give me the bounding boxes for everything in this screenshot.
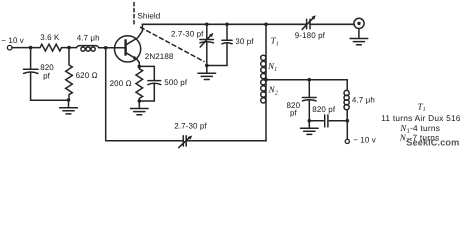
node dot (C5 bottom) [308,119,312,123]
svg-text:2N2188: 2N2188 [145,52,174,61]
label 820 pf (C1) [40,63,54,81]
capacitor C5 820 pf vertical [303,80,317,121]
svg-text:620 Ω: 620 Ω [76,71,98,80]
svg-text:2.7-30 pf: 2.7-30 pf [174,122,207,131]
terminal J3 -10v [345,139,349,143]
node T1 tap dot [264,78,268,82]
svg-text:3.6 K: 3.6 K [40,33,60,42]
inductor L1 4.7 uh [77,46,99,52]
svg-text:Shield: Shield [138,12,161,21]
node junction dot (R2 bottom) [67,98,71,102]
transformer T1 winding line [265,24,267,141]
capacitor C2 500 pf [139,66,160,101]
svg-text:2.7-30 pf: 2.7-30 pf [171,29,204,38]
ground (emitter) [131,101,149,115]
wire feedback bottom left segment [106,140,183,142]
wire feedback bottom right segment [187,140,266,142]
wire left rail [12,47,40,49]
wire C3 bottom to C4 bottom [207,65,227,67]
svg-text:T1: T1 [418,101,426,113]
node dot (C5 top) [308,78,312,82]
shield dashed line diagonal [141,27,205,61]
node rail dot (T1 top) [264,23,268,27]
terminal J2 output coax [354,18,364,28]
node rail dot (C4 30pf) [225,23,229,27]
node base junction dot [104,46,108,50]
node junction dot (820pf / rail) [29,46,33,50]
wire feedback vertical left [105,48,107,141]
ground (output terminal) [350,29,368,45]
node dot (L2 bottom) [346,119,350,123]
node emitter junction dot [138,65,142,69]
svg-text:T1: T1 [271,36,279,48]
inductor L2 4.7 uh [344,80,349,121]
svg-text:pf: pf [290,109,298,118]
capacitor C7 820 pf horizontal [309,115,347,127]
wire L2 to terminal [346,121,348,140]
transformer T1 coil loops [261,55,266,103]
node emitter network bottom dot [138,99,142,103]
resistor R3 200 ohm [136,66,143,101]
svg-text:820 pf: 820 pf [312,105,336,114]
transistor Q1 2N2188 [115,24,143,66]
wire top rail right of C6 [310,23,354,25]
wire top rail (collector bus) [142,23,306,25]
ground (R2/C1) [60,100,78,114]
svg-text:4.7 μh: 4.7 μh [77,34,100,43]
ground (C5) [301,121,319,135]
node dot C3 bottom [205,64,209,68]
svg-text:11 turns Air Dux 516: 11 turns Air Dux 516 [381,113,460,123]
resistor R2 620 ohm [66,48,73,100]
terminal J1 -10v input [7,45,12,50]
trimmer capacitor C8 2.7-30 pf [179,136,193,148]
ground (C3/C4) [198,66,216,80]
wire rail to base [99,47,125,49]
wire rail segment [62,47,77,49]
node junction dot (620 ohm / rail) [67,46,71,50]
label 820 pf (C5) [287,101,301,118]
trimmer capacitor C3 2.7-30 pf [200,24,214,65]
svg-text:200 Ω: 200 Ω [110,79,132,88]
capacitor C4 30 pf [222,24,232,65]
svg-text:− 10 v: − 10 v [353,135,376,144]
svg-text:500 pf: 500 pf [164,78,188,87]
capacitor C1 820 pf [24,48,39,101]
svg-text:N1: N1 [267,61,277,73]
node rail dot (trimmer C3) [205,23,209,27]
svg-text:9-180 pf: 9-180 pf [295,31,326,40]
svg-text:N2: N2 [268,85,278,97]
svg-text:pf: pf [43,72,51,81]
shield dashed line vertical [133,3,135,25]
svg-text:− 10 v: − 10 v [1,36,24,45]
wire cap bottom to resistor bottom [31,99,69,101]
resistor R1 3.6K [40,44,62,51]
svg-text:30 pf: 30 pf [235,37,254,46]
variable capacitor C6 9-180 pf [302,15,316,29]
svg-text:4.7 μh: 4.7 μh [352,95,375,104]
svg-text:SeekIC.com: SeekIC.com [406,138,459,148]
wire tap to right section [266,79,347,81]
